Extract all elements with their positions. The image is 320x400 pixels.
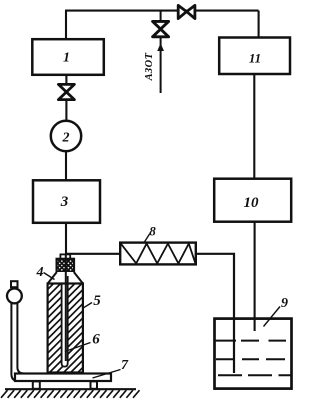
platform foot left xyxy=(33,381,40,388)
inner tube 6 outline xyxy=(62,276,68,367)
svg-text:4: 4 xyxy=(36,265,44,280)
svg-text:1: 1 xyxy=(63,51,70,66)
label 6 leader xyxy=(65,343,91,352)
label 7 leader xyxy=(93,370,121,379)
wire: box 3 down to vessel cap xyxy=(65,223,67,259)
platform foot right xyxy=(91,381,98,388)
wire: header down to box 11 xyxy=(258,11,260,38)
label 5 leader xyxy=(84,303,93,308)
stand ball xyxy=(7,289,22,304)
wire: meter 2 to box 3 xyxy=(65,152,67,182)
platform 7 xyxy=(15,374,111,382)
liquid level dashes row 1 xyxy=(216,340,287,342)
vessel body 5 xyxy=(0,283,181,373)
svg-text:9: 9 xyxy=(281,296,288,311)
wire: tee to heat exchanger 8 xyxy=(65,253,121,255)
tank 9 xyxy=(215,319,292,389)
central capillary xyxy=(65,254,67,361)
heat exchanger 8 xyxy=(120,243,196,265)
vessel neck xyxy=(48,272,83,284)
svg-text:7: 7 xyxy=(121,358,129,373)
wire: box 1 to valve V1 xyxy=(65,75,67,121)
valve V3 on header xyxy=(178,5,195,18)
vessel cap 4 xyxy=(39,258,89,273)
valve V2 nitrogen xyxy=(153,21,169,36)
box 10 xyxy=(214,179,291,222)
box 1 xyxy=(32,39,104,75)
svg-text:6: 6 xyxy=(92,332,100,348)
wire: box 10 down into tank 9 xyxy=(254,222,256,332)
flow meter 2 xyxy=(51,121,81,151)
box 3 xyxy=(33,180,100,223)
stand stem xyxy=(11,303,30,381)
ground line xyxy=(5,388,136,390)
wire: top header pipe xyxy=(65,10,259,12)
label 4 leader xyxy=(44,273,55,280)
svg-text:5: 5 xyxy=(93,293,101,309)
svg-text:3: 3 xyxy=(60,194,69,210)
liquid level dashes row 2 xyxy=(216,358,285,360)
nitrogen flow arrow xyxy=(157,43,164,51)
wire: heat exchanger 8 to tank 9 xyxy=(195,254,234,373)
liquid level dashes row 3 xyxy=(218,374,291,376)
wire: box 11 to box 10 xyxy=(253,74,255,179)
box 11 xyxy=(219,38,290,75)
stand knob xyxy=(11,281,18,287)
ground hatching xyxy=(1,390,140,398)
label 8 leader xyxy=(144,234,150,243)
svg-text:10: 10 xyxy=(244,195,260,211)
vessel top fitting xyxy=(60,254,70,259)
svg-text:11: 11 xyxy=(249,51,261,66)
nitrogen inlet line xyxy=(160,11,162,93)
svg-text:АЗОТ: АЗОТ xyxy=(144,52,155,81)
svg-text:2: 2 xyxy=(62,131,70,146)
svg-text:8: 8 xyxy=(149,224,156,239)
label 9 leader xyxy=(264,307,281,327)
wire: header down to box 1 xyxy=(65,11,67,40)
valve V1 xyxy=(58,84,74,99)
